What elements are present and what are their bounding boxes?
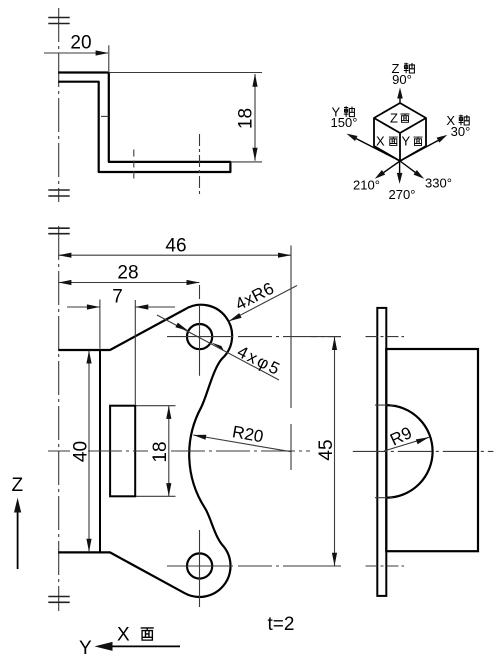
svg-text:Y: Y <box>79 638 92 659</box>
svg-text:20: 20 <box>70 33 91 54</box>
side horizontal centerline <box>353 450 494 452</box>
side tick top hole <box>366 336 405 338</box>
dimension 40 <box>71 351 92 552</box>
leader 4x phi5 <box>157 315 284 380</box>
horizontal centerline <box>48 450 310 452</box>
svg-text:150°: 150° <box>331 115 358 130</box>
bend line <box>99 350 101 552</box>
side tick slot top <box>375 404 397 406</box>
svg-text:330°: 330° <box>425 176 452 191</box>
slot rectangle <box>110 406 135 497</box>
svg-text:18: 18 <box>236 108 257 129</box>
svg-text:46: 46 <box>165 236 186 257</box>
dimension 45 <box>311 337 341 566</box>
svg-text:210°: 210° <box>353 178 380 193</box>
hole centerline through flange <box>199 134 201 195</box>
Z axis arrow <box>14 498 21 569</box>
svg-text:t=2: t=2 <box>268 614 295 635</box>
R20 center mark <box>290 424 292 470</box>
Y axis arrow <box>347 134 401 161</box>
X axis arrow <box>400 135 447 161</box>
dimension 46 <box>58 236 291 409</box>
svg-text:X: X <box>376 134 385 149</box>
break marks front top <box>48 228 69 234</box>
svg-text:X: X <box>117 625 130 646</box>
part outline <box>58 305 232 597</box>
330 arrow <box>400 161 424 179</box>
profile outline <box>58 73 230 173</box>
X plane label <box>117 625 154 646</box>
svg-text:270°: 270° <box>389 187 416 202</box>
svg-text:30°: 30° <box>451 124 471 139</box>
iso labels <box>331 61 471 202</box>
Z axis label <box>12 475 24 496</box>
svg-text:Z: Z <box>390 111 398 126</box>
top hole crosshair <box>167 285 341 376</box>
centerline top view <box>58 8 60 202</box>
side plate bar <box>377 308 386 596</box>
leader 4xR6 <box>229 279 297 322</box>
R9 semicircle <box>386 405 432 498</box>
side body <box>386 349 478 551</box>
break marks front bottom <box>48 597 69 603</box>
dimension 18 slot <box>136 406 176 497</box>
leader R20 <box>193 422 291 451</box>
side tick slot bottom <box>375 497 397 499</box>
dimension 18 top view <box>109 73 262 162</box>
leader R9 <box>384 423 429 451</box>
dimension 28 <box>58 263 199 286</box>
svg-text:Y: Y <box>402 134 411 149</box>
break marks bottom of top view <box>48 190 69 196</box>
Y axis label <box>79 638 92 659</box>
270 arrow <box>397 161 403 184</box>
top hole <box>187 324 212 349</box>
dimension 7 <box>67 287 175 405</box>
svg-text:40: 40 <box>71 441 92 462</box>
dimension 20 <box>44 33 109 72</box>
thickness note t=2 <box>268 614 295 635</box>
svg-text:28: 28 <box>117 263 138 284</box>
bottom hole <box>187 553 212 578</box>
centerline front view <box>58 226 60 611</box>
Y axis arrow <box>95 642 181 651</box>
cube <box>374 103 426 161</box>
kanji axis/plane glyphs <box>344 63 469 146</box>
side tick bottom hole <box>366 565 405 567</box>
svg-text:45: 45 <box>316 439 337 460</box>
break marks top <box>48 18 69 24</box>
svg-text:90°: 90° <box>392 72 412 87</box>
hidden line on flange <box>133 150 135 182</box>
svg-text:7: 7 <box>112 287 123 308</box>
svg-text:Z: Z <box>12 475 24 496</box>
Z axis arrow <box>397 88 403 104</box>
svg-text:18: 18 <box>150 441 171 462</box>
210 arrow <box>375 161 400 179</box>
bottom hole crosshair <box>167 530 341 607</box>
web center dash <box>101 115 109 117</box>
